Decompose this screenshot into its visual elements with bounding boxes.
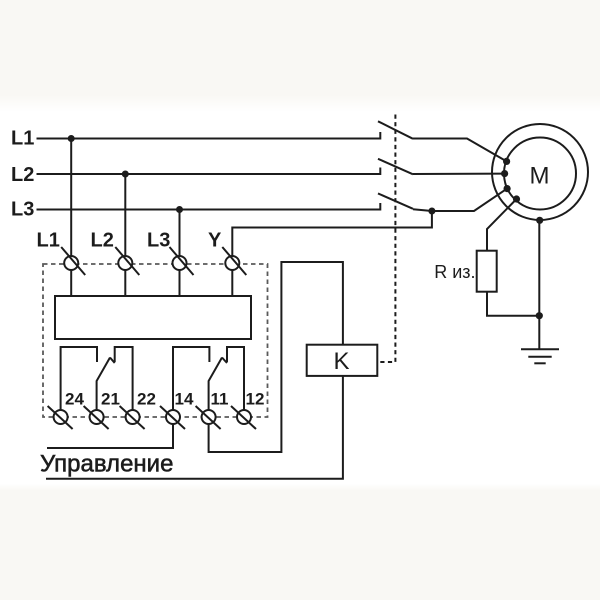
wire L2 bus xyxy=(37,173,381,175)
coil K box xyxy=(307,345,378,376)
mechanical linkage (dashed) to coil K xyxy=(378,115,396,363)
relay body xyxy=(55,296,251,339)
svg-text:M: M xyxy=(530,163,550,190)
svg-text:R из.: R из. xyxy=(434,262,475,282)
relay enclosure (dashed box) xyxy=(43,264,268,417)
wire terminal L1 to relay body xyxy=(70,270,72,296)
contact 11 movable blade xyxy=(209,358,227,411)
wire L2 drop to terminal xyxy=(124,174,126,257)
wire Y terminal to L3 tap xyxy=(232,211,432,257)
svg-text:14: 14 xyxy=(175,390,194,409)
svg-text:L2: L2 xyxy=(91,230,114,252)
svg-text:24: 24 xyxy=(65,390,84,409)
wire terminal L3 to relay body xyxy=(179,270,181,296)
wire motor tap to resistor xyxy=(487,199,517,251)
contact 12 branch (NC fixed contact) xyxy=(227,347,244,410)
terminal 11 xyxy=(196,406,221,429)
node L3-Y tap xyxy=(428,208,435,215)
svg-text:L1: L1 xyxy=(11,128,34,150)
terminal 12 xyxy=(231,406,256,429)
svg-text:L2: L2 xyxy=(11,164,34,186)
wire L3 bus xyxy=(37,209,381,211)
ground symbol xyxy=(521,349,559,363)
node ground junction xyxy=(536,312,543,319)
node L3 tap xyxy=(176,206,183,213)
node motor phase 1 xyxy=(503,158,510,165)
svg-text:Y: Y xyxy=(208,230,222,252)
wire L3 drop to terminal xyxy=(179,210,181,257)
wire terminal Y to relay body xyxy=(231,270,233,296)
terminal L2 xyxy=(115,247,139,275)
svg-text:11: 11 xyxy=(211,390,229,409)
terminal 21 xyxy=(84,406,109,429)
motor M inner circle xyxy=(504,138,576,210)
terminal L3 xyxy=(170,247,194,275)
node motor insulation tap xyxy=(513,195,520,202)
contactor main contact S2 xyxy=(378,159,413,175)
contact 14 branch (NO fixed contact) xyxy=(173,347,209,410)
svg-text:L3: L3 xyxy=(11,199,34,221)
wire resistor to ground node xyxy=(487,292,539,316)
wire S3 output to motor xyxy=(413,189,507,211)
svg-text:L1: L1 xyxy=(37,230,60,252)
wire L1 drop to terminal xyxy=(70,139,72,257)
wire terminal L2 to relay body xyxy=(124,270,126,296)
node motor frame xyxy=(536,217,543,224)
wire terminal 11 to coil K xyxy=(209,262,343,452)
node motor phase 2 xyxy=(501,170,508,177)
contact 21 movable blade xyxy=(97,358,115,411)
terminal L1 xyxy=(61,247,85,275)
svg-text:Управление: Управление xyxy=(40,451,173,478)
terminal 22 xyxy=(120,406,145,429)
contactor main contact S3 xyxy=(378,193,413,210)
motor M outer circle xyxy=(492,124,588,220)
terminal 24 xyxy=(48,406,73,429)
node motor phase 3 xyxy=(504,185,511,192)
wire coil K to control xyxy=(46,376,343,479)
wire S2 output to motor xyxy=(413,173,505,175)
svg-text:L3: L3 xyxy=(147,230,170,252)
node L2 tap xyxy=(122,171,129,178)
node L1 tap xyxy=(68,135,75,142)
wire S1 output to motor xyxy=(413,139,507,162)
terminal 14 xyxy=(160,406,185,429)
wire terminal 14 to control xyxy=(47,424,173,448)
resistor R iz. xyxy=(477,251,497,292)
svg-text:21: 21 xyxy=(101,390,120,409)
svg-text:12: 12 xyxy=(246,390,265,409)
wire L1 bus xyxy=(37,138,381,140)
terminal Y xyxy=(222,247,246,275)
contact 24 branch (NO fixed contact) xyxy=(61,347,97,410)
contact 22 branch (NC fixed contact) xyxy=(115,347,133,410)
contactor main contact S1 xyxy=(378,121,413,139)
wire motor frame to ground xyxy=(538,220,540,349)
svg-text:22: 22 xyxy=(137,390,156,409)
svg-text:K: K xyxy=(334,348,350,375)
